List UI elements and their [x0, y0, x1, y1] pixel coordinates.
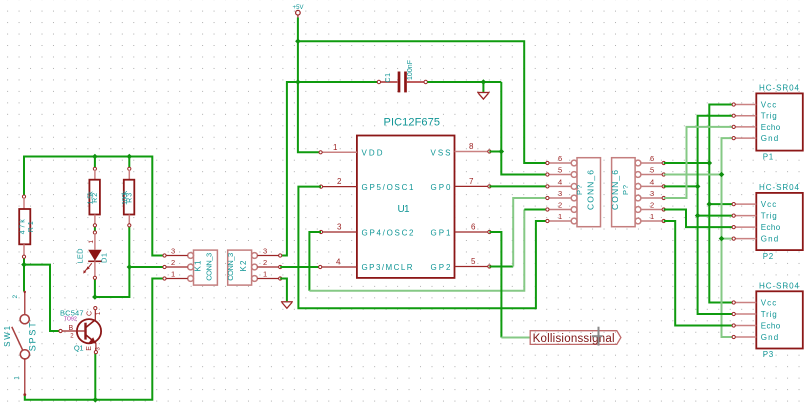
svg-text:R3: R3 — [127, 193, 134, 203]
junction node R1-SW1-Q1base — [21, 262, 27, 268]
svg-text:Kollisionssignal: Kollisionssignal — [533, 333, 615, 345]
svg-text:LED: LED — [76, 248, 85, 264]
wire R3 bottom to junction — [128, 226, 130, 267]
svg-text:1: 1 — [650, 212, 654, 221]
junction Trig bus P2 — [695, 213, 701, 219]
svg-text:Vcc: Vcc — [761, 101, 777, 110]
sensor P3 HC-SR04 — [732, 282, 803, 360]
svg-text:Trig: Trig — [761, 212, 777, 221]
junction Vcc bus pin6 — [707, 160, 713, 166]
svg-text:D1: D1 — [99, 253, 108, 263]
svg-text:Echo: Echo — [761, 322, 781, 331]
svg-text:3: 3 — [650, 189, 654, 198]
wire GP4 to CONN_6 left pin2 — [309, 210, 547, 291]
power symbol +5V — [293, 5, 304, 18]
svg-text:Gnd: Gnd — [761, 134, 779, 143]
svg-text:1: 1 — [263, 270, 267, 279]
wire top-left rail R1-R2-R3 to K1 pin3 — [24, 157, 165, 256]
svg-text:P3: P3 — [763, 350, 774, 359]
wire GP5 to CONN_6 left pin1 — [298, 187, 547, 309]
svg-text:3: 3 — [337, 223, 342, 232]
wire CONN right pin4 to Trig bus — [664, 185, 698, 187]
wire Trig bus P1-P2-P3 — [698, 116, 734, 314]
svg-text:B: B — [69, 325, 74, 332]
svg-text:GP5/OSC1: GP5/OSC1 — [362, 183, 415, 192]
wire LED cathode to node — [94, 279, 96, 298]
wire CONN right pin5 to Gnd bus — [664, 174, 722, 176]
junction Trig bus pin4 — [695, 184, 701, 190]
svg-text:GP2: GP2 — [431, 263, 452, 272]
cursor crosshair — [592, 327, 602, 346]
svg-text:Gnd: Gnd — [761, 333, 779, 342]
svg-text:8: 8 — [469, 142, 474, 151]
svg-text:K2: K2 — [239, 260, 248, 272]
svg-text:4: 4 — [336, 258, 341, 267]
wire C1 to ground node — [427, 81, 501, 83]
U1 pin 7 GP0 — [455, 177, 492, 188]
svg-text:2: 2 — [171, 258, 175, 267]
wire CONN right pin3 to P1 Echo — [664, 127, 734, 198]
svg-text:C: C — [87, 311, 94, 316]
svg-text:1: 1 — [171, 270, 175, 279]
svg-text:CONN_3: CONN_3 — [205, 253, 214, 281]
wire GP2 to CONN_6 left pin3 — [489, 198, 547, 267]
svg-text:5: 5 — [558, 166, 562, 175]
svg-text:HC-SR04: HC-SR04 — [759, 183, 800, 192]
svg-text:P?: P? — [575, 185, 584, 195]
svg-text:VSS: VSS — [431, 148, 451, 157]
connector K1 CONN_3 — [163, 247, 218, 286]
U1 pin 1 VDD — [319, 143, 357, 154]
junction LED cathode node — [92, 294, 98, 300]
wire Vcc bus P1-P2-P3 — [709, 105, 733, 303]
svg-text:VDD: VDD — [362, 148, 383, 157]
svg-text:6: 6 — [650, 154, 654, 163]
wire +5V branch to C1 left plate — [298, 81, 378, 83]
wire GP0 to CONN_6 left pin4 — [489, 185, 547, 187]
junction VSS rail — [499, 149, 505, 155]
svg-text:GP0: GP0 — [431, 183, 452, 192]
wire SW1 pin1 to bottom rail — [25, 279, 165, 400]
connector P? CONN_6 right — [610, 154, 665, 227]
wire GP1 to Kollisionssignal label — [489, 232, 530, 338]
svg-text:Trig: Trig — [761, 112, 777, 121]
resistor R1 — [19, 195, 35, 258]
capacitor C1 100nF — [377, 60, 427, 92]
svg-text:Echo: Echo — [761, 223, 781, 232]
svg-text:SW1: SW1 — [3, 325, 12, 347]
ground below C1 — [477, 93, 489, 100]
svg-text:HC-SR04: HC-SR04 — [759, 84, 800, 93]
svg-text:CONN_3: CONN_3 — [226, 253, 235, 281]
junction +5V top rail branch — [295, 38, 301, 44]
svg-text:GP1: GP1 — [431, 228, 452, 237]
svg-text:E: E — [86, 346, 93, 351]
wire junction to Q1 base — [24, 265, 60, 331]
global label Kollisionssignal — [530, 331, 621, 345]
svg-text:100nF: 100nF — [407, 60, 414, 80]
wire +5V vertical to IC pin1 VDD — [298, 18, 321, 153]
svg-text:6: 6 — [471, 223, 476, 232]
U1 pin 8 VSS — [455, 142, 492, 153]
wire R2 bottom to LED anode — [94, 226, 96, 232]
junction Vcc bus P2 — [707, 201, 713, 207]
U1 pin 5 GP2 — [455, 257, 492, 268]
svg-text:GP4/OSC2: GP4/OSC2 — [362, 228, 415, 237]
svg-text:C1: C1 — [385, 73, 392, 83]
wire K2 pin2 to IC pin4 GP3 — [280, 266, 320, 268]
wire +5V top rail to CONN_6 left pin6 — [298, 41, 548, 163]
U1 pin 2 GP5 — [319, 177, 357, 188]
wire node to R3 column — [95, 267, 129, 297]
svg-text:P2: P2 — [763, 252, 774, 261]
svg-text:47k: 47k — [19, 219, 26, 235]
junction ground node — [481, 79, 487, 85]
sensor P1 HC-SR04 — [732, 84, 803, 162]
svg-text:2: 2 — [558, 201, 562, 210]
svg-text:4: 4 — [650, 177, 654, 186]
junction +5V to C1 branch — [295, 79, 301, 85]
svg-text:SPST: SPST — [27, 322, 37, 352]
svg-text:5: 5 — [650, 166, 654, 175]
switch SW1 SPST — [3, 291, 37, 396]
junction top rail at R3 — [127, 154, 133, 160]
svg-text:3: 3 — [171, 247, 175, 256]
svg-text:Vcc: Vcc — [761, 200, 777, 209]
svg-text:2: 2 — [263, 258, 267, 267]
svg-text:1: 1 — [88, 240, 95, 244]
wire Gnd bus P1-P2-P3 — [722, 138, 734, 337]
svg-text:Trig: Trig — [761, 310, 777, 319]
U1 pin 3 GP4 — [319, 223, 357, 234]
svg-text:2: 2 — [337, 177, 342, 186]
wire K2 pin1 to ground — [280, 279, 287, 302]
svg-text:P1: P1 — [763, 152, 774, 161]
LED D1 — [76, 231, 109, 280]
svg-text:4: 4 — [558, 177, 562, 186]
sensor P2 HC-SR04 — [732, 183, 803, 261]
svg-text:K1: K1 — [194, 260, 203, 272]
wire CONN right pin2 to P2 Echo — [664, 210, 734, 228]
transistor Q2 BC547 — [59, 307, 102, 354]
U1 pin 4 GP3 — [319, 258, 357, 269]
svg-text:HC-SR04: HC-SR04 — [759, 282, 800, 291]
connector K2 CONN_3 — [226, 247, 282, 286]
wire ground stem — [482, 82, 484, 92]
wire junction to K1 pin2 — [129, 266, 164, 268]
junction top rail at R2 — [92, 154, 98, 160]
wire R1 bottom to SW1 pin2 — [23, 257, 25, 292]
wire VSS to ground rail and CONN_6 left pin5 — [489, 82, 547, 175]
svg-text:1: 1 — [558, 212, 562, 221]
svg-text:U1: U1 — [398, 204, 410, 215]
svg-text:R2: R2 — [92, 193, 99, 203]
wire +5V branch to K2 pin3 — [280, 82, 298, 256]
wire CONN right pin6 to Vcc bus — [664, 162, 710, 164]
svg-text:PIC12F675: PIC12F675 — [384, 117, 441, 129]
svg-text:5: 5 — [471, 257, 476, 266]
svg-text:Q1: Q1 — [74, 344, 84, 353]
svg-text:3: 3 — [263, 247, 267, 256]
op-amp U1 PIC12F675 body — [357, 117, 455, 278]
junction Gnd bus P2 — [719, 236, 725, 242]
resistor R2 — [88, 157, 100, 227]
ground below K2 — [281, 302, 293, 309]
resistor R3 — [122, 157, 134, 227]
svg-text:Gnd: Gnd — [761, 235, 779, 244]
svg-text:TO92: TO92 — [64, 317, 77, 323]
wire Q1 emitter down to bottom rail — [94, 353, 96, 400]
svg-text:Echo: Echo — [761, 123, 781, 132]
svg-text:2: 2 — [12, 295, 19, 299]
svg-text:1: 1 — [333, 143, 338, 152]
U1 pin 6 GP1 — [455, 223, 492, 234]
svg-text:P?: P? — [621, 185, 630, 195]
svg-text:Vcc: Vcc — [761, 299, 777, 308]
svg-text:6: 6 — [558, 154, 562, 163]
junction R3 bottom K1 pin2 — [127, 264, 133, 270]
junction Gnd bus pin5 — [719, 172, 725, 178]
wire CONN right pin1 to P3 Echo — [664, 221, 734, 326]
svg-text:2: 2 — [650, 201, 654, 210]
connector P? CONN_6 left — [546, 154, 601, 227]
svg-text:1: 1 — [14, 376, 21, 380]
svg-text:GP3/MCLR: GP3/MCLR — [362, 263, 413, 272]
svg-text:3: 3 — [558, 189, 562, 198]
junction bottom rail at Q1 emitter — [93, 397, 99, 403]
svg-text:7: 7 — [469, 177, 474, 186]
